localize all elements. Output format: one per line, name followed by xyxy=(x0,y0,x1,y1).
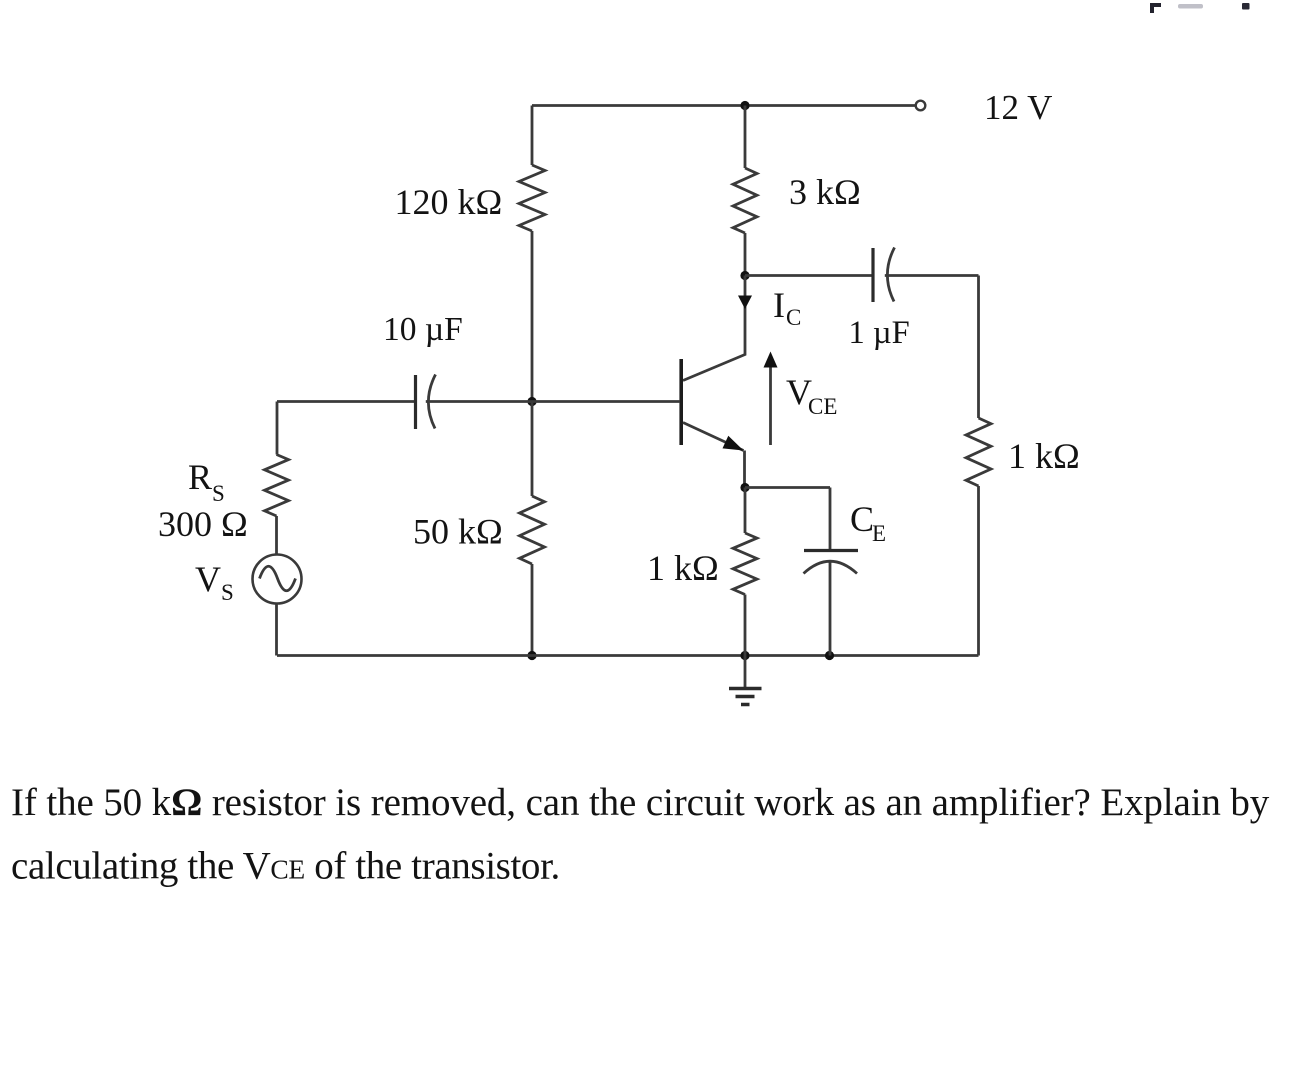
svg-text:S: S xyxy=(212,481,225,506)
resistor 50 kOhm xyxy=(520,496,545,564)
wire Rs to Vs xyxy=(275,516,278,555)
wire Vs to bottom rail xyxy=(275,604,278,656)
svg-text:CE: CE xyxy=(808,394,837,419)
svg-text:E: E xyxy=(872,521,886,546)
wire 120k to base node xyxy=(531,231,534,402)
svg-text:S: S xyxy=(221,580,234,605)
node collector xyxy=(740,271,749,280)
svg-text:I: I xyxy=(773,285,785,325)
resistor 1 kOhm load xyxy=(966,418,991,486)
capacitor CE top plate xyxy=(804,549,858,552)
label R_S xyxy=(188,457,225,506)
transistor Q1 emitter diagonal xyxy=(683,423,744,451)
ground bars xyxy=(729,689,762,705)
wire collector node down to transistor collector xyxy=(683,276,745,381)
transistor Q1 base bar xyxy=(679,359,683,445)
node at top rail / collector branch xyxy=(740,101,749,110)
wire 10uF to base node xyxy=(426,400,532,403)
svg-text:V: V xyxy=(195,559,221,599)
svg-text:300 Ω: 300 Ω xyxy=(158,504,248,544)
wire top rail from 120k branch to 12V terminal xyxy=(532,104,916,107)
wire emitter node to CE branch xyxy=(745,486,830,489)
svg-text:C: C xyxy=(850,499,874,539)
capacitor 10uF right plate arc xyxy=(428,375,435,429)
arrow Ic on collector wire xyxy=(738,296,752,310)
wire 1k emitter to bottom rail xyxy=(744,595,747,656)
source Vs circle xyxy=(253,555,302,604)
12V terminal circle xyxy=(916,101,926,111)
wire output branch lower xyxy=(977,486,980,656)
wire collector node to 1uF xyxy=(745,274,873,277)
wire emitter to emitter node xyxy=(743,451,746,488)
node bottom CE branch xyxy=(825,651,834,660)
resistor 120 kOhm xyxy=(519,165,545,231)
capacitor 1uF left plate xyxy=(871,248,874,302)
wire source branch upper xyxy=(276,402,279,455)
svg-text:1 kΩ: 1 kΩ xyxy=(647,548,719,588)
resistor Rs 300 Ohm xyxy=(265,455,289,517)
transistor Q1 emitter arrowhead xyxy=(723,436,744,451)
wire 3k to collector node xyxy=(744,233,747,276)
svg-text:50 kΩ: 50 kΩ xyxy=(413,512,503,552)
wire CE branch upper xyxy=(829,488,832,551)
wire 50k to bottom rail xyxy=(531,564,534,656)
wire base rail from divider node to transistor base xyxy=(532,400,680,403)
wire left bias branch upper (top rail to 120k) xyxy=(531,106,534,166)
svg-text:3 kΩ: 3 kΩ xyxy=(789,172,861,212)
label C_E xyxy=(850,499,886,546)
wire emitter node to 1k emitter resistor xyxy=(744,488,747,534)
arrow V_CE xyxy=(769,365,772,445)
wire bottom rail xyxy=(277,654,979,657)
svg-text:If the 50 kΩ resistor is remov: If the 50 kΩ resistor is removed, can th… xyxy=(11,781,1270,824)
resistor 1 kOhm emitter xyxy=(733,533,757,595)
svg-text:10 µF: 10 µF xyxy=(383,311,463,348)
svg-text:120 kΩ: 120 kΩ xyxy=(395,182,503,222)
wire collector branch top (top rail to 3k) xyxy=(744,106,747,169)
ground stem xyxy=(744,656,747,689)
node emitter xyxy=(740,483,749,492)
label I_C xyxy=(773,285,801,330)
capacitor 10uF left plate xyxy=(414,375,417,429)
wire 1uF to output branch xyxy=(885,274,979,277)
label V_CE xyxy=(786,372,837,419)
label V_s xyxy=(195,559,234,605)
wire input corner to 10uF cap xyxy=(277,400,415,403)
svg-text:C: C xyxy=(786,305,801,330)
source Vs sine xyxy=(260,566,296,591)
svg-text:12 V: 12 V xyxy=(984,88,1052,127)
capacitor CE bottom plate arc xyxy=(804,561,858,573)
node at bottom rail / bias branch xyxy=(527,651,536,660)
svg-text:1 µF: 1 µF xyxy=(849,315,910,351)
node bottom emitter branch xyxy=(740,651,749,660)
wire base node to 50k xyxy=(531,402,534,497)
wire output branch upper xyxy=(977,276,980,419)
resistor 3 kOhm xyxy=(733,168,757,233)
page corner artifact marks xyxy=(1150,3,1250,13)
wire CE branch lower xyxy=(829,562,832,656)
node at base rail / bias divider xyxy=(527,397,536,406)
svg-text:R: R xyxy=(188,457,212,497)
svg-text:1 kΩ: 1 kΩ xyxy=(1008,436,1080,476)
capacitor 1uF right plate arc xyxy=(887,248,894,302)
